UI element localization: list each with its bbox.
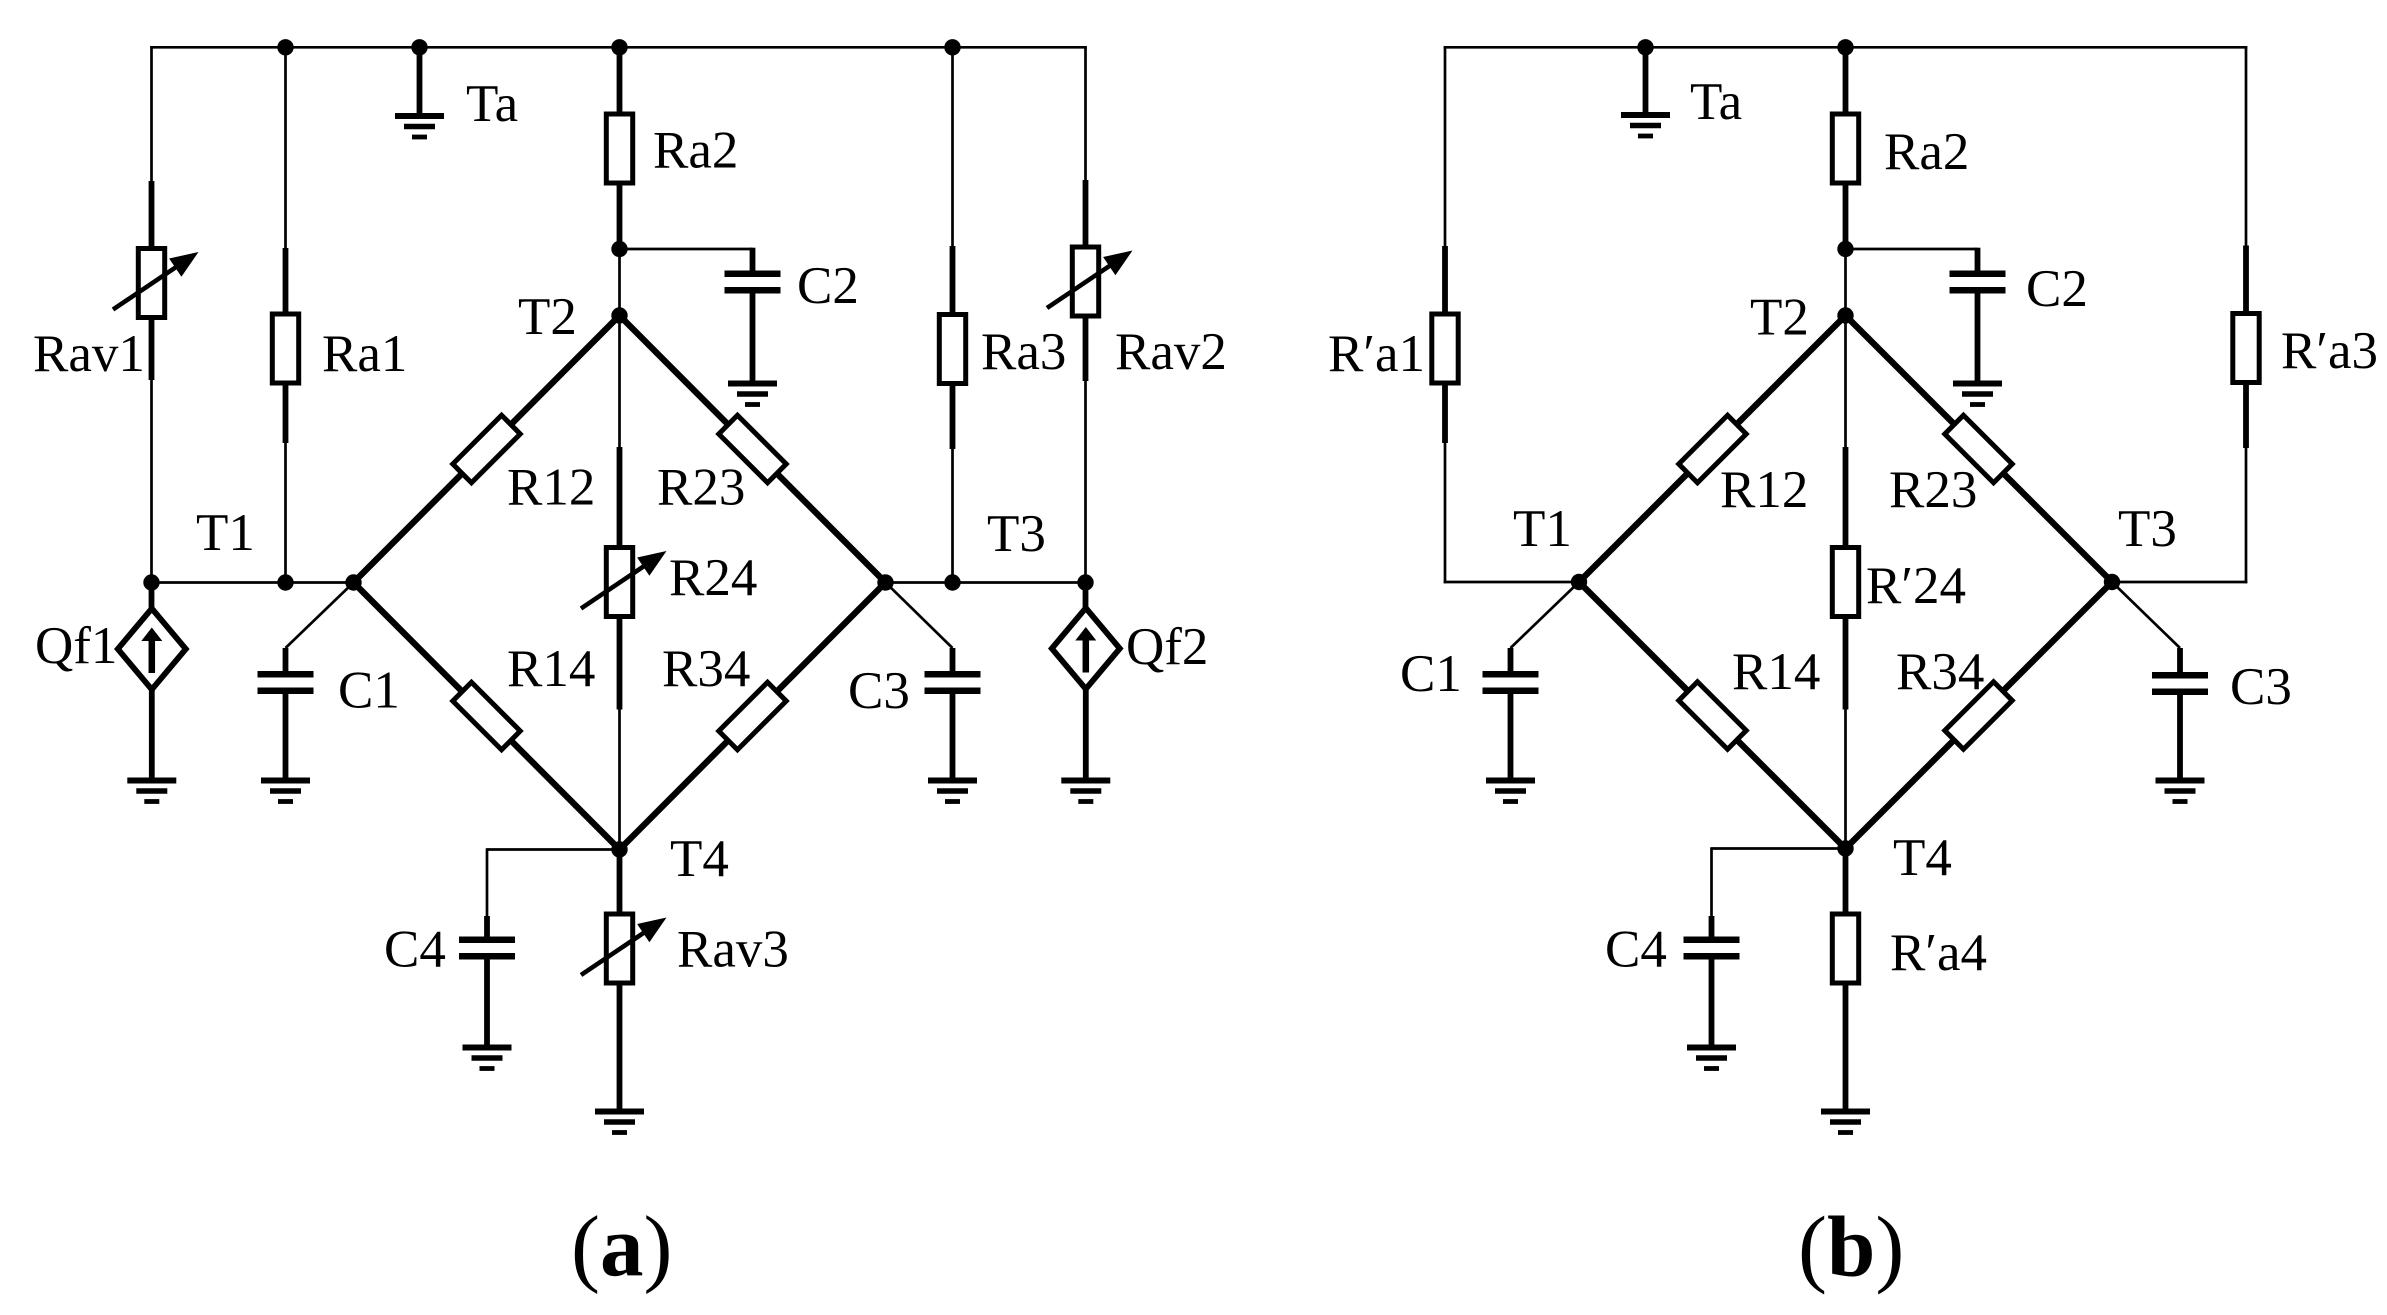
svg-text:C3: C3 — [848, 662, 910, 720]
svg-text:T1: T1 — [1513, 500, 1572, 558]
svg-text:T3: T3 — [987, 505, 1046, 563]
svg-text:T4: T4 — [1893, 829, 1952, 887]
svg-text:Ra3: Ra3 — [981, 323, 1066, 381]
svg-text:R23: R23 — [1889, 461, 1977, 519]
svg-text:(b): (b) — [1798, 1198, 1904, 1295]
svg-text:Ra2: Ra2 — [653, 122, 738, 180]
svg-text:T3: T3 — [2118, 500, 2177, 558]
svg-text:Rav2: Rav2 — [1115, 323, 1227, 381]
svg-text:Ta: Ta — [466, 75, 518, 133]
svg-text:Ta: Ta — [1690, 73, 1742, 131]
svg-text:C4: C4 — [384, 921, 446, 979]
svg-text:Ra2: Ra2 — [1884, 123, 1969, 181]
svg-text:C1: C1 — [338, 662, 400, 720]
svg-text:Rav1: Rav1 — [33, 325, 145, 383]
svg-text:Ra1: Ra1 — [322, 325, 407, 383]
svg-text:R12: R12 — [507, 459, 595, 517]
svg-text:Qf1: Qf1 — [35, 617, 117, 675]
svg-text:T2: T2 — [1750, 289, 1809, 347]
svg-text:C2: C2 — [2026, 260, 2088, 318]
svg-text:C2: C2 — [797, 257, 859, 315]
svg-text:R14: R14 — [507, 640, 595, 698]
svg-text:R′a1: R′a1 — [1328, 325, 1425, 383]
svg-text:R34: R34 — [1896, 643, 1984, 701]
svg-text:R23: R23 — [657, 459, 745, 517]
svg-text:Qf2: Qf2 — [1126, 618, 1208, 676]
svg-text:T2: T2 — [518, 288, 577, 346]
svg-text:(a): (a) — [571, 1198, 672, 1295]
svg-text:R12: R12 — [1720, 461, 1808, 519]
svg-text:C1: C1 — [1400, 645, 1462, 703]
svg-text:T1: T1 — [196, 504, 255, 562]
svg-text:R14: R14 — [1732, 643, 1820, 701]
svg-text:R′a4: R′a4 — [1890, 924, 1987, 982]
svg-text:R34: R34 — [662, 640, 750, 698]
svg-text:C4: C4 — [1605, 921, 1667, 979]
svg-text:R24: R24 — [669, 549, 757, 607]
svg-text:Rav3: Rav3 — [677, 921, 789, 979]
svg-text:R′24: R′24 — [1866, 557, 1966, 615]
svg-text:T4: T4 — [670, 830, 729, 888]
svg-text:C3: C3 — [2230, 658, 2292, 716]
svg-text:R′a3: R′a3 — [2281, 322, 2378, 380]
